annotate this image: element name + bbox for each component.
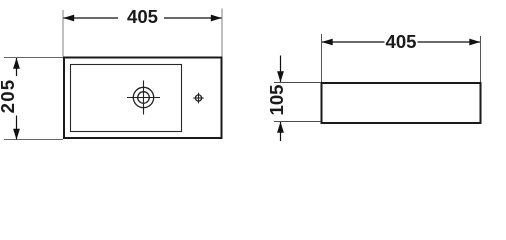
svg-text:405: 405 <box>385 31 416 52</box>
svg-text:105: 105 <box>266 84 287 115</box>
svg-text:205: 205 <box>0 79 18 114</box>
svg-text:405: 405 <box>127 6 158 27</box>
